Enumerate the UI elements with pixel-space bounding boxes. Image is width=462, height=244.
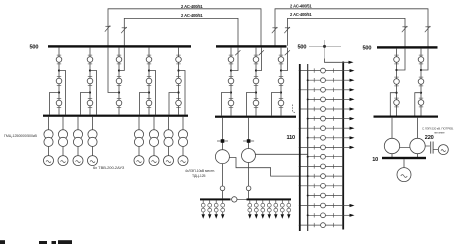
disconnector ticks on row y=128.2 bbox=[313, 126, 315, 130]
breaker circle middle of feeder x=149 bbox=[146, 78, 152, 84]
breaker circle on row y=89.8 bbox=[321, 87, 326, 92]
arrow outgoing on row y=99.4 bbox=[343, 98, 349, 100]
wire: feeder vertical at x=119 bbox=[118, 48, 120, 115]
generator G at x=168.5 bbox=[164, 156, 174, 166]
bus: 110kV switchgear right vertical bus bbox=[342, 62, 344, 230]
wire: link from 500kV cross down to 110kV top row bbox=[325, 59, 349, 63]
node junction lower of feeder x=421 bbox=[420, 92, 422, 94]
breaker circle bottom of feeder x=119 bbox=[116, 100, 122, 106]
wire: 110kV feeder row at y=176.1 bbox=[308, 175, 344, 177]
wire: transformer 2 to 220kV tie bbox=[425, 145, 430, 147]
disconnector ticks on row y=147.4 bbox=[313, 145, 315, 149]
disconnector ticks on row y=156.7 bbox=[313, 155, 315, 159]
breaker circle middle of feeder x=256 bbox=[253, 78, 259, 84]
node junction lower of feeder x=178.5 bbox=[177, 91, 179, 93]
wire: unit connection from lower bus at x=48.5 bbox=[48, 117, 50, 130]
node junction lower of feeder x=90 bbox=[89, 91, 91, 93]
wire: right bypass branch of feeder x=59 bbox=[59, 71, 66, 115]
node junction upper of feeder x=90 bbox=[89, 69, 91, 71]
wire: 110kV feeder row at y=137.8 bbox=[308, 137, 344, 139]
disconnector ticks on row y=225.1 bbox=[313, 223, 315, 227]
wire: right bypass branch of feeder x=396.5 bbox=[397, 49, 406, 70]
wire: transformer to generator at x=48.5 bbox=[48, 147, 50, 156]
transformer two-winding at x=78 bbox=[73, 130, 82, 139]
transformer two-winding at x=92.5 bbox=[88, 130, 97, 139]
wire: transformer to generator at x=154 bbox=[153, 147, 155, 156]
wire: right bypass branch of feeder x=256 bbox=[256, 48, 262, 71]
disconnector ticks on row y=215.3 bbox=[313, 213, 315, 217]
wire: unit connection from lower bus at x=168.5 bbox=[168, 117, 170, 130]
generator G at x=78 bbox=[73, 156, 83, 166]
disconnector ticks on row y=137.8 bbox=[313, 136, 315, 140]
wire: transmission line 1 right segment with drops at x275 and x428 bbox=[275, 9, 428, 47]
bus: right 500kV busbar bbox=[377, 46, 438, 48]
breaker circle top of feeder x=59 bbox=[56, 57, 62, 63]
node: 220kV connection bars bbox=[430, 142, 432, 154]
node: registration cross near middle bus bbox=[309, 45, 341, 47]
breaker circle middle of feeder x=231 bbox=[228, 78, 234, 84]
svg-text:2 АС-400/51: 2 АС-400/51 bbox=[290, 3, 312, 8]
disconnector on line2 right-segment left drop bbox=[285, 27, 290, 29]
node junction lower of feeder x=231 bbox=[230, 91, 232, 93]
wire: left bypass branch of feeder x=90 bbox=[81, 93, 91, 115]
svg-text:6х ТВВ-200-2АУЗ: 6х ТВВ-200-2АУЗ bbox=[93, 165, 125, 170]
wire: transformer 1 to generator bar bbox=[391, 154, 393, 157]
wire: feeder vertical at x=281 bbox=[280, 48, 282, 116]
wire: right bypass branch of feeder x=90 bbox=[90, 71, 97, 115]
svg-text:500: 500 bbox=[298, 45, 307, 51]
wire: left bypass branch of feeder x=231 bbox=[222, 93, 232, 116]
node junction lower of feeder x=396.5 bbox=[395, 92, 397, 94]
breaker circle on row y=70.6 bbox=[321, 68, 326, 73]
breaker circle on row y=205.5 bbox=[321, 203, 326, 208]
breaker circle on row y=118.6 bbox=[321, 116, 326, 121]
wire: unit connection from lower bus at x=92.5 bbox=[92, 117, 94, 130]
wire: transformer to generator at x=63 bbox=[62, 147, 64, 156]
svg-text:ГМЦ-1250000/500кВ: ГМЦ-1250000/500кВ bbox=[4, 134, 37, 138]
disconnector ticks on row y=205.5 bbox=[313, 203, 315, 207]
bus sectionalizer circle bbox=[232, 197, 237, 202]
wire: unit connection from lower bus at x=78 bbox=[77, 117, 79, 130]
wire: link from transformer B to 110kV switchgear bbox=[256, 153, 308, 155]
breaker circle on incoming B bbox=[246, 186, 251, 191]
generator G at x=139 bbox=[134, 156, 144, 166]
breaker circle middle of feeder x=178.5 bbox=[176, 78, 182, 84]
node junction upper of feeder x=59 bbox=[58, 69, 60, 71]
transformer two-winding at x=168.5 bbox=[164, 130, 173, 139]
wire: feeder vertical at x=231 bbox=[230, 48, 232, 116]
arrow top row outgoing bbox=[349, 61, 354, 64]
breaker circle on row y=185.8 bbox=[321, 183, 326, 188]
breaker circle bottom of feeder x=281 bbox=[278, 100, 284, 106]
disconnector on line1 right-segment left drop bbox=[272, 27, 277, 29]
node junction upper of feeder x=178.5 bbox=[177, 69, 179, 71]
wire: 110kV feeder row at y=118.6 bbox=[308, 118, 344, 120]
node junction upper of feeder x=281 bbox=[280, 69, 282, 71]
disconnector ticks on row y=185.8 bbox=[313, 184, 315, 188]
caption fragment: 6.15 part2 bbox=[52, 241, 57, 244]
wire: left bypass branch of feeder x=178.5 bbox=[169, 93, 179, 115]
svg-text:220: 220 bbox=[425, 135, 434, 141]
node junction upper of feeder x=231 bbox=[230, 69, 232, 71]
svg-text:ТДЦ-125: ТДЦ-125 bbox=[192, 174, 206, 178]
breaker circle bottom of feeder x=178.5 bbox=[176, 100, 182, 106]
wire: feeder vertical at x=149 bbox=[148, 48, 150, 115]
load feeder with fuse and arrow at x=282.3 bbox=[281, 200, 283, 214]
breaker circle bottom of feeder x=149 bbox=[146, 100, 152, 106]
node junction upper of feeder x=119 bbox=[118, 69, 120, 71]
wire: 110kV feeder row at y=147.4 bbox=[300, 146, 343, 148]
disconnector ticks on row y=195.5 bbox=[313, 193, 315, 197]
disconnector on line1 right-segment right drop bbox=[425, 26, 430, 28]
wire: right bypass branch of feeder x=178.5 bbox=[179, 71, 186, 115]
wire: feeder vertical at x=256 bbox=[255, 48, 257, 116]
wire: transmission line 2 right segment with drops at x287.5 and x405 bbox=[288, 18, 406, 46]
wire: drop to transformer B bbox=[248, 118, 250, 149]
breaker circle top of feeder x=119 bbox=[116, 57, 122, 63]
wire: left bypass branch of feeder x=256 bbox=[247, 93, 257, 116]
wire: feeder vertical at x=90 bbox=[89, 48, 91, 115]
wire: stub line above 110 label bbox=[293, 105, 296, 114]
wire: 110kV feeder row at y=99.4 bbox=[308, 98, 344, 100]
breaker circle middle of feeder x=119 bbox=[116, 78, 122, 84]
caption fragment: 6.15 part3 bbox=[58, 240, 72, 244]
breaker circle on row y=137.8 bbox=[321, 135, 326, 140]
disconnector ticks on row y=166.4 bbox=[313, 164, 315, 168]
wire: right bypass branch of feeder x=231 bbox=[231, 48, 238, 71]
breaker circle bottom of feeder x=90 bbox=[87, 100, 93, 106]
caption fragment: Ris. bbox=[0, 240, 5, 244]
disconnector ticks on row y=109.0 bbox=[313, 107, 315, 111]
wire: 110kV feeder row at y=89.8 bbox=[300, 89, 343, 91]
disconnector on line2 right-segment right drop bbox=[402, 26, 407, 28]
load feeder with fuse and arrow at x=288.8 bbox=[288, 200, 290, 214]
breaker (closed) on drop A bbox=[217, 140, 228, 142]
load feeder with fuse and arrow at x=209.7 bbox=[209, 200, 211, 214]
wire: 110kV feeder row at y=166.4 bbox=[300, 165, 343, 167]
wire: right bypass branch of feeder x=149 bbox=[149, 71, 156, 115]
breaker circle on row y=80.2 bbox=[321, 78, 326, 83]
transformer B circle bbox=[242, 149, 256, 163]
wire: transformer to generator at x=168.5 bbox=[168, 147, 170, 156]
svg-text:2 АС-400/51: 2 АС-400/51 bbox=[290, 12, 312, 17]
load feeder with fuse and arrow at x=275.8 bbox=[275, 200, 277, 214]
bus: left lower busbar bbox=[43, 115, 188, 117]
breaker circle on row y=99.4 bbox=[321, 97, 326, 102]
generator G at x=154 bbox=[149, 156, 159, 166]
wire: drop to transformer A bbox=[222, 118, 224, 150]
breaker circle middle of feeder x=59 bbox=[56, 78, 62, 84]
wire: left bypass branch of feeder x=421 bbox=[415, 93, 421, 116]
breaker circle top of feeder x=281 bbox=[278, 57, 284, 63]
wire: 110kV feeder row at y=185.8 bbox=[300, 185, 343, 187]
breaker circle on row y=156.7 bbox=[321, 154, 326, 159]
wire: feeder vertical at x=59 bbox=[58, 48, 60, 115]
bus: 110kV switchgear vertical bus 1 bbox=[299, 64, 301, 231]
disconnector ticks on row y=176.1 bbox=[313, 174, 315, 178]
transformer right 2 circle bbox=[410, 138, 425, 153]
wire: left bypass branch of feeder x=119 bbox=[108, 48, 119, 93]
arrow outgoing on row y=128.2 bbox=[343, 127, 349, 129]
breaker circle top of feeder x=231 bbox=[228, 57, 234, 63]
transformer right 1 circle bbox=[384, 138, 399, 153]
node junction lower of feeder x=59 bbox=[58, 91, 60, 93]
breaker circle bottom of feeder x=59 bbox=[56, 100, 62, 106]
breaker circle on row y=176.1 bbox=[321, 174, 326, 179]
breaker circle middle of feeder x=421 bbox=[418, 79, 424, 85]
arrow outgoing on row y=80.2 bbox=[343, 79, 349, 81]
breaker (closed) on drop B bbox=[243, 140, 254, 142]
wire: unit connection from lower bus at x=154 bbox=[153, 117, 155, 130]
wire: transformer B down to local bus bbox=[248, 163, 250, 199]
wire: left bypass branch of feeder x=281 bbox=[272, 93, 282, 116]
transformer two-winding at x=139 bbox=[134, 130, 143, 139]
transformer two-winding at x=154 bbox=[149, 130, 158, 139]
node junction lower of feeder x=119 bbox=[118, 91, 120, 93]
wire: right bypass branch of feeder x=281 bbox=[281, 48, 288, 71]
breaker circle top of feeder x=421 bbox=[418, 57, 424, 63]
bus: right lower busbar bbox=[374, 116, 439, 118]
generator G at x=63 bbox=[58, 156, 68, 166]
breaker circle bottom of feeder x=396.5 bbox=[394, 100, 400, 106]
node junction upper of feeder x=421 bbox=[420, 69, 422, 71]
wire: feeder vertical at x=396.5 bbox=[396, 49, 398, 116]
breaker circle on row y=225.1 bbox=[321, 223, 326, 228]
arrow outgoing on row y=205.5 bbox=[343, 205, 349, 207]
svg-text:10: 10 bbox=[372, 157, 378, 163]
load feeder with fuse and arrow at x=216.2 bbox=[215, 200, 217, 214]
breaker circle on row y=109.0 bbox=[321, 107, 326, 112]
bus: 110kV switchgear vertical bus 2 bbox=[307, 64, 309, 231]
load feeder with fuse and arrow at x=222.7 bbox=[222, 200, 224, 214]
wire: transmission line 2 left segment with drops at x124 and x238 bbox=[124, 18, 238, 46]
breaker circle middle of feeder x=396.5 bbox=[394, 79, 400, 85]
wire: feeder vertical at x=178.5 bbox=[178, 48, 180, 115]
node junction upper of feeder x=256 bbox=[255, 69, 257, 71]
arrow outgoing on row y=215.3 bbox=[343, 214, 349, 216]
wire: bar to right generator bbox=[403, 159, 405, 167]
arrow outgoing on row y=147.4 bbox=[343, 146, 349, 148]
wire: transformer to generator at x=183 bbox=[182, 147, 184, 156]
bus: left 500kV busbar bbox=[48, 45, 191, 47]
wire: 110kV feeder row at y=70.6 bbox=[300, 70, 343, 72]
load feeder with fuse and arrow at x=262.8 bbox=[262, 200, 264, 214]
disconnector on line1 left drop bbox=[105, 25, 110, 27]
bus: right generator 10kV bar bbox=[382, 157, 426, 159]
wire: 110kV feeder row at y=128.2 bbox=[300, 127, 343, 129]
transformer two-winding at x=183 bbox=[178, 130, 187, 139]
breaker circle on row y=195.5 bbox=[321, 193, 326, 198]
wire: right bypass branch of feeder x=421 bbox=[421, 49, 428, 70]
disconnector below middle bus on drop x=261.5 bbox=[259, 50, 264, 55]
wire: drop to right transformer 2 bbox=[417, 118, 419, 139]
breaker circle on row y=128.2 bbox=[321, 126, 326, 131]
disconnector ticks on row y=70.6 bbox=[313, 68, 315, 72]
svg-text:2 АС-400/51: 2 АС-400/51 bbox=[181, 4, 203, 9]
arrow outgoing on row y=137.8 bbox=[343, 137, 349, 139]
svg-text:2 АС-400/51: 2 АС-400/51 bbox=[181, 13, 203, 18]
disconnector ticks on row y=80.2 bbox=[313, 78, 315, 82]
transformer two-winding at x=48.5 bbox=[44, 130, 53, 139]
generator right G bbox=[397, 168, 411, 182]
load feeder with fuse and arrow at x=256.3 bbox=[255, 200, 257, 214]
wire: 110kV feeder row at y=195.5 bbox=[308, 195, 344, 197]
transformer A circle bbox=[215, 150, 229, 164]
wire: 110kV feeder row at y=109.0 bbox=[300, 108, 343, 110]
wire: transformer to generator at x=92.5 bbox=[92, 147, 94, 156]
breaker circle middle of feeder x=281 bbox=[278, 78, 284, 84]
node junction lower of feeder x=281 bbox=[280, 91, 282, 93]
breaker circle middle of feeder x=90 bbox=[87, 78, 93, 84]
breaker circle top of feeder x=256 bbox=[253, 57, 259, 63]
wire: 110kV feeder row at y=225.1 bbox=[300, 224, 343, 226]
transformer two-winding at x=63 bbox=[58, 130, 67, 139]
disconnector ticks on row y=99.4 bbox=[313, 97, 315, 101]
wire: right bypass branch of feeder x=119 bbox=[119, 48, 124, 71]
wire: 110kV feeder row at y=80.2 bbox=[308, 79, 344, 81]
wire: 110kV feeder row at y=215.3 bbox=[308, 214, 344, 216]
wire: left bypass branch of feeder x=59 bbox=[50, 93, 60, 115]
wire: transformer to generator at x=139 bbox=[138, 147, 140, 156]
breaker circle on row y=215.3 bbox=[321, 213, 326, 218]
node junction lower of feeder x=149 bbox=[148, 91, 150, 93]
node junction upper of feeder x=396.5 bbox=[395, 69, 397, 71]
wire: left bypass branch of feeder x=396.5 bbox=[390, 93, 396, 116]
disconnector below middle bus on drop x=287.5 bbox=[285, 50, 290, 55]
wire: unit connection from lower bus at x=183 bbox=[182, 117, 184, 130]
breaker circle top of feeder x=90 bbox=[87, 57, 93, 63]
arrow outgoing on row y=118.6 bbox=[343, 118, 349, 120]
breaker circle top of feeder x=178.5 bbox=[176, 57, 182, 63]
generator G at x=183 bbox=[178, 156, 188, 166]
breaker circle on row y=147.4 bbox=[321, 145, 326, 150]
wire: drop to right transformer 1 bbox=[391, 118, 393, 139]
arrow outgoing on row y=70.6 bbox=[343, 70, 349, 72]
svg-text:110: 110 bbox=[287, 135, 296, 141]
load feeder with fuse and arrow at x=249.8 bbox=[249, 200, 251, 214]
wire: tie to external 220kV system bbox=[433, 149, 438, 151]
svg-text:питание: питание bbox=[434, 131, 445, 135]
generator G at x=48.5 bbox=[44, 156, 54, 166]
disconnector on line2 left drop bbox=[122, 27, 127, 29]
breaker circle on row y=166.4 bbox=[321, 164, 326, 169]
bus: middle lower busbar bbox=[215, 116, 296, 118]
wire: 110kV feeder row at y=205.5 bbox=[300, 205, 343, 207]
wire: stepped link from transformer A to 110kV switchgear bbox=[229, 158, 307, 177]
wire: unit connection from lower bus at x=139 bbox=[138, 117, 140, 130]
wire: link between right transformers bbox=[400, 147, 410, 149]
breaker circle bottom of feeder x=421 bbox=[418, 100, 424, 106]
wire: transmission line 1 left segment (2 AC-400/51) with drops at x108 and x261 bbox=[108, 9, 261, 46]
bus: bottom-left 10kV bus segment bbox=[200, 198, 231, 200]
caption fragment: 6.15 part1 bbox=[39, 241, 47, 244]
breaker circle bottom of feeder x=231 bbox=[228, 100, 234, 106]
wire: left bypass branch of feeder x=149 bbox=[140, 93, 150, 115]
svg-text:4хЛЭП-10кВ местн.: 4хЛЭП-10кВ местн. bbox=[185, 169, 215, 173]
breaker circle bottom of feeder x=256 bbox=[253, 100, 259, 106]
disconnector ticks on row y=89.8 bbox=[313, 88, 315, 92]
svg-text:500: 500 bbox=[30, 45, 39, 51]
arrow outgoing on row y=89.8 bbox=[343, 89, 349, 91]
generator G at x=92.5 bbox=[88, 156, 98, 166]
load feeder with fuse and arrow at x=269.3 bbox=[268, 200, 270, 214]
disconnector ticks on row y=118.6 bbox=[313, 116, 315, 120]
wire: transformer A down to local bus bbox=[222, 164, 224, 199]
node junction lower of feeder x=256 bbox=[255, 91, 257, 93]
load feeder with fuse and arrow at x=203.2 bbox=[202, 200, 204, 214]
wire: unit connection from lower bus at x=63 bbox=[62, 117, 64, 130]
wire: transformer 2 to generator bar bbox=[417, 154, 419, 157]
wire: feeder vertical at x=421 bbox=[420, 49, 422, 116]
node junction upper of feeder x=149 bbox=[148, 69, 150, 71]
arrow outgoing on row y=109.0 bbox=[343, 108, 349, 110]
breaker circle top of feeder x=149 bbox=[146, 57, 152, 63]
bus: bottom-right 10kV bus segment bbox=[247, 198, 292, 200]
bus: middle 500kV busbar bbox=[216, 45, 287, 47]
AC source 220kV system circle bbox=[438, 145, 448, 155]
breaker circle on incoming A bbox=[220, 186, 225, 191]
svg-text:500: 500 bbox=[363, 45, 372, 51]
wire: 110kV feeder row at y=156.7 bbox=[308, 156, 344, 158]
breaker circle top of feeder x=396.5 bbox=[394, 57, 400, 63]
wire: sectionalizer link bbox=[237, 198, 247, 200]
wire: transformer to generator at x=78 bbox=[77, 147, 79, 156]
disconnector below middle bus on drop x=238 bbox=[235, 50, 240, 55]
